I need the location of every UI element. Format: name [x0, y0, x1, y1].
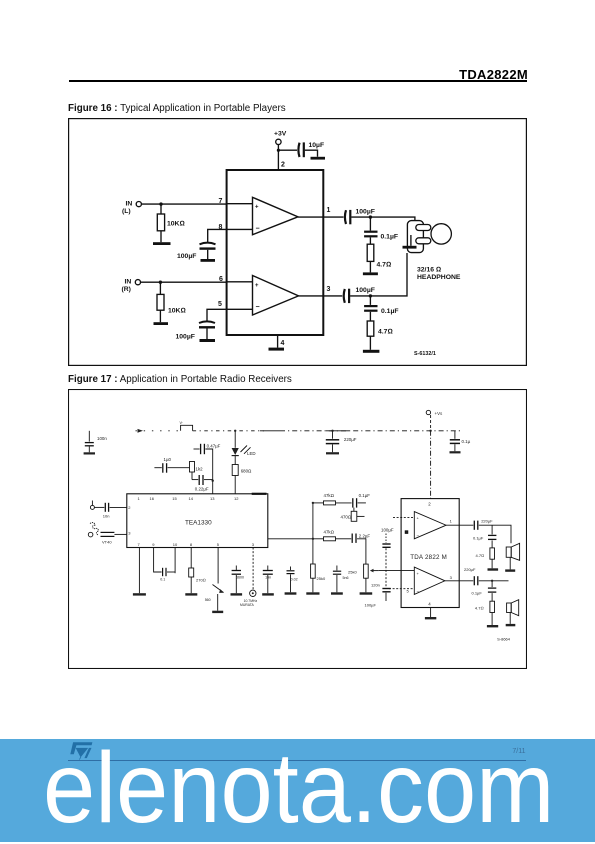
svg-text:4: 4 [428, 602, 431, 607]
output 1 wire [446, 524, 473, 526]
svg-text:100µF: 100µF [176, 334, 195, 341]
wire 10uF to ground [305, 150, 318, 157]
svg-text:−: − [256, 304, 260, 311]
svg-text:MURATA: MURATA [240, 603, 255, 607]
svg-text:10n: 10n [103, 513, 110, 518]
ground pot [360, 592, 373, 594]
ground 15n [262, 593, 274, 595]
svg-text:−: − [256, 226, 260, 233]
svg-text:2.2µF: 2.2µF [359, 533, 371, 538]
wire to headphone bottom [350, 253, 407, 296]
capacitor 10n left [104, 503, 106, 512]
headphone jack ground line [410, 235, 412, 246]
resistor 680ohm [232, 465, 238, 476]
svg-text:10µF: 10µF [309, 142, 325, 149]
op-amp U1A IC box [227, 170, 324, 335]
capacitor 0.22uF [192, 479, 198, 481]
pin4 ground wire [430, 608, 432, 618]
svg-text:−: − [417, 589, 420, 594]
svg-text:0.1µF: 0.1µF [381, 234, 399, 241]
svg-text:3: 3 [327, 286, 331, 293]
svg-text:4.7Ω: 4.7Ω [475, 606, 484, 611]
capacitor 100uF pin5 bottom plate [199, 326, 215, 328]
svg-text:100µF: 100µF [177, 253, 196, 260]
svg-text:47kΩ: 47kΩ [324, 530, 334, 535]
wire cap to ground [207, 250, 209, 259]
svg-text:680Ω: 680Ω [241, 469, 252, 474]
svg-text:+: + [417, 571, 420, 576]
svg-text:2: 2 [281, 162, 285, 169]
capacitor 0.1 below TEA [162, 568, 164, 576]
svg-text:1: 1 [327, 207, 331, 214]
svg-text:16: 16 [150, 496, 155, 501]
ground 100n [84, 452, 95, 454]
dashed stub bottom amp minus [389, 588, 414, 590]
wire junction to 10uF [278, 149, 297, 151]
wire to ground ch2 [369, 336, 371, 350]
murata resonator drop [252, 548, 254, 590]
svg-text:0.1µ: 0.1µ [462, 439, 471, 444]
LED D1 drop [234, 431, 236, 448]
input terminal R [135, 280, 140, 285]
ground 5n6 [331, 592, 343, 594]
headphone jack body [407, 221, 423, 253]
ground 100uF pin5 [200, 339, 216, 342]
node out1 junction [369, 215, 372, 218]
svg-text:9: 9 [152, 542, 155, 547]
svg-text:100µF: 100µF [356, 209, 375, 216]
resistor 470ohm [353, 508, 355, 512]
svg-text:V·: V· [180, 421, 184, 425]
svg-text:120n: 120n [371, 583, 380, 588]
figure 17 frame [69, 390, 527, 669]
TEA pin8 wire + resistor 270 [190, 548, 192, 569]
resistor 4.7ohm ch2 [367, 321, 374, 336]
resistor 10K L [157, 214, 164, 231]
fig17 fills: junction dots and grounds [84, 430, 516, 628]
resistor 1k2 [190, 462, 195, 473]
node rail-Vs [429, 430, 431, 432]
capacitor 220uF out1 [473, 521, 475, 530]
svg-text:10: 10 [173, 542, 178, 547]
ground transistor [212, 611, 223, 613]
svg-text:0.1µF: 0.1µF [359, 493, 371, 498]
bias chain vertical [312, 503, 314, 564]
capacitor 2.2uF lower [351, 534, 353, 543]
svg-text:0.02: 0.02 [291, 578, 298, 582]
TEA pin10 wire [174, 548, 176, 574]
ground 0.1/4.7 ch1 [363, 272, 378, 275]
switch S1 [181, 425, 193, 431]
IC TDA2822M box [401, 499, 459, 608]
capacitor 100uF out2 [344, 289, 345, 303]
svg-text:0.22µF: 0.22µF [195, 487, 209, 492]
capacitor 100n input [88, 431, 90, 442]
svg-text:4.7Ω: 4.7Ω [378, 329, 393, 336]
svg-text:+: + [255, 283, 259, 289]
svg-text:−: − [417, 534, 420, 539]
wire IN R [141, 281, 227, 283]
wire pin6 inside [227, 281, 253, 283]
resistor 47k lower [313, 538, 324, 540]
svg-text:2: 2 [428, 502, 431, 507]
murata circle [250, 590, 256, 596]
TEA pin7 ground wire [138, 548, 140, 594]
svg-text:+3V: +3V [274, 131, 287, 138]
capacitor 1u0 [154, 467, 161, 469]
svg-text:VT40: VT40 [102, 539, 112, 544]
wire junction down ch2 [369, 296, 371, 305]
supply rail dash-dot [136, 430, 181, 432]
ground headphone [403, 246, 417, 249]
svg-text:270Ω: 270Ω [196, 577, 206, 582]
svg-text:220µF: 220µF [481, 519, 493, 524]
wire to ground ch1 [369, 261, 371, 272]
ceramic filter cap 5600 [235, 566, 237, 571]
capacitor 0.1uF out1 [491, 525, 493, 534]
resistor 2k5 chain [311, 564, 316, 578]
ground 0.1u rail [450, 451, 461, 453]
junction node dots [153, 149, 417, 353]
Vs terminal [426, 410, 430, 414]
node IN R junction [159, 281, 162, 284]
ground 10K L [153, 242, 171, 245]
ground 220uF [326, 452, 339, 454]
svg-text:220µF: 220µF [344, 437, 357, 442]
resistor 4.7ohm ch1 [367, 244, 374, 261]
capacitor 220uF rail [332, 431, 334, 439]
wire to resistor ch2 [369, 312, 371, 321]
cap 15n [267, 566, 269, 571]
svg-text:12: 12 [234, 496, 239, 501]
svg-text:0.47µF: 0.47µF [207, 444, 221, 449]
svg-text:32/16 Ω: 32/16 Ω [417, 267, 441, 274]
resistor 4.7 out2 [490, 601, 495, 612]
svg-text:100n: 100n [97, 436, 107, 441]
figure 16 frame [69, 119, 527, 366]
svg-text:47kΩ: 47kΩ [324, 493, 334, 498]
ground bias chain [306, 592, 319, 594]
ground pin4 [269, 348, 285, 351]
svg-text:+: + [417, 516, 420, 521]
capacitor 100uF pin8 top plate [200, 243, 216, 245]
capacitor 100uF out1 [345, 210, 346, 224]
svg-text:0.1µF: 0.1µF [472, 591, 483, 596]
wire to ground L [160, 231, 162, 242]
input terminal L [136, 202, 141, 207]
IC TEA1330 box [127, 494, 268, 548]
capacitor 0.1uF ch1 [364, 231, 377, 233]
svg-text:6: 6 [219, 276, 223, 283]
svg-text:TEA1330: TEA1330 [185, 520, 212, 527]
svg-text:5n6: 5n6 [343, 576, 349, 580]
capacitor 0.47uF [194, 448, 200, 450]
dashed stub top amp input [393, 516, 414, 518]
labels [122, 131, 461, 358]
capacitor 100uF pin8 bottom plate [200, 247, 216, 249]
svg-text:4.7Ω: 4.7Ω [476, 553, 485, 558]
svg-text:5: 5 [407, 589, 410, 594]
resistor 10K R [157, 294, 164, 310]
wire pin7 inside [227, 203, 253, 205]
svg-text:1µ0: 1µ0 [164, 457, 172, 462]
svg-text:+: + [255, 205, 259, 211]
svg-text:1k2: 1k2 [196, 467, 204, 472]
svg-text:3: 3 [252, 542, 255, 547]
wire to resistor ch1 [369, 237, 371, 244]
svg-text:LED: LED [247, 451, 256, 456]
ground 0.1/4.7 ch2 [363, 350, 380, 353]
node out2 junction [369, 294, 372, 297]
svg-text:4.7Ω: 4.7Ω [377, 262, 392, 269]
svg-text:TDA 2822 M: TDA 2822 M [410, 554, 447, 561]
capacitor 0.1uF out2 [491, 581, 493, 587]
FIG16 [68, 118, 527, 366]
node rail-220uF [331, 430, 333, 432]
wire to headphone top [351, 217, 415, 221]
ground 10uF [311, 157, 326, 160]
ground 22n [285, 592, 297, 594]
svg-text:10KΩ: 10KΩ [168, 308, 186, 315]
100uF column dashes [385, 534, 387, 544]
speaker 1 [506, 547, 511, 557]
wire junction down ch1 [369, 217, 371, 230]
ground 270 [185, 593, 197, 595]
capacitor 10uF [298, 143, 299, 157]
svg-text:15n: 15n [265, 576, 271, 580]
left input terminal circle [90, 505, 94, 509]
capacitor 0.1uF ch2 [364, 305, 377, 307]
resistor 4.7 out1 [490, 548, 495, 559]
wire to ground R [159, 310, 161, 322]
fig17 labels [97, 411, 511, 642]
svg-text:3: 3 [128, 531, 131, 536]
TEA pin9 wire [154, 548, 162, 573]
svg-text:5600: 5600 [236, 576, 244, 580]
svg-text:S-6132/1: S-6132/1 [414, 351, 436, 357]
ground filter 5600 [231, 593, 243, 595]
op-amp A triangle [253, 197, 299, 234]
ground TEA pin7 [133, 593, 146, 595]
input square pin [405, 531, 408, 534]
resistor 47k upper [313, 502, 324, 504]
wire +3V to pin2 [277, 145, 279, 170]
headphone contact tabs [416, 224, 452, 244]
ground out1 [488, 568, 499, 570]
resistor 10K R drop [159, 282, 161, 294]
svg-text:1: 1 [450, 519, 453, 524]
wire pin5 [207, 309, 253, 320]
wire cap to ground [206, 329, 208, 340]
capacitor 100uF pin5 top plate [199, 321, 215, 323]
transistor / detector diagonal [217, 548, 219, 584]
svg-text:7: 7 [138, 542, 141, 547]
capacitor 22n node [290, 567, 292, 571]
svg-text:+VS: +VS [435, 411, 444, 416]
svg-text:25k0: 25k0 [317, 576, 326, 581]
svg-text:0.1µF: 0.1µF [473, 536, 484, 541]
capacitor 220uF out2 [473, 576, 475, 585]
ground speaker2 [506, 624, 516, 626]
svg-text:8: 8 [190, 542, 193, 547]
ground speaker1 [505, 569, 515, 571]
footer banner [0, 739, 595, 842]
node out2 junction [491, 580, 493, 582]
svg-text:4: 4 [281, 340, 285, 347]
svg-text:25k0: 25k0 [348, 570, 357, 575]
svg-text:560: 560 [205, 598, 211, 602]
svg-text:S-8664: S-8664 [497, 637, 511, 642]
ground 10K R [154, 322, 169, 325]
capacitor 0.1u rail right [454, 431, 456, 439]
svg-text:(R): (R) [122, 286, 131, 293]
svg-text:470Ω: 470Ω [341, 515, 352, 520]
node IN L junction [159, 202, 162, 205]
ground pin4 TDA [425, 617, 436, 619]
op-amp 2 triangle [414, 567, 445, 594]
svg-text:10KΩ: 10KΩ [167, 221, 185, 228]
+3V terminal [276, 139, 281, 144]
node +3V junction [277, 149, 280, 152]
svg-text:1: 1 [138, 496, 141, 501]
ground out2 [487, 625, 498, 627]
svg-text:HEADPHONE: HEADPHONE [417, 274, 461, 281]
wire pin8 [208, 229, 253, 242]
wire IN L [142, 203, 227, 205]
node 0.47 junction [212, 480, 214, 482]
rail arrow [138, 429, 144, 433]
headphone earpiece [431, 224, 451, 244]
variable cap lines [101, 531, 115, 533]
svg-text:(L): (L) [122, 208, 131, 215]
svg-text:0.1µF: 0.1µF [381, 308, 399, 315]
pin2 dash-dot drop to TDA [430, 431, 432, 499]
svg-text:IN: IN [126, 201, 133, 208]
header rule [69, 80, 527, 81]
svg-text:100µF: 100µF [365, 603, 377, 608]
FIG17 [68, 389, 527, 669]
wire TEA out right [268, 538, 313, 540]
svg-text:2: 2 [128, 505, 131, 510]
capacitor 5n6 node [336, 566, 338, 571]
node bias top [312, 502, 314, 504]
svg-text:5: 5 [217, 542, 220, 547]
node bias mid [312, 538, 314, 540]
op-amp 1 triangle [414, 512, 446, 539]
svg-text:IN: IN [125, 279, 132, 286]
svg-text:100µF: 100µF [356, 287, 375, 294]
svg-text:8: 8 [219, 224, 223, 231]
output 2 wire [445, 580, 473, 582]
svg-text:3: 3 [450, 575, 453, 580]
svg-text:13: 13 [210, 496, 215, 501]
node rail-LED [234, 430, 236, 432]
wire pin4 [277, 335, 279, 348]
wire pot to TDA input [379, 570, 415, 572]
ST logo [69, 741, 93, 760]
svg-text:15: 15 [172, 496, 177, 501]
ferrite antenna swirl [90, 523, 99, 535]
ground 100uF pin8 [201, 259, 216, 262]
LED D1 [232, 448, 239, 455]
wire pin3 out [299, 295, 343, 297]
svg-text:100µF: 100µF [381, 528, 394, 533]
node murata dot [252, 592, 254, 594]
speaker 2 [507, 603, 512, 613]
svg-text:14: 14 [189, 496, 194, 501]
volume pot 25k [364, 564, 369, 578]
svg-text:0.1: 0.1 [160, 578, 165, 582]
wire pin1 out [298, 216, 344, 218]
svg-text:220µF: 220µF [464, 567, 476, 572]
op-amp B triangle [253, 276, 299, 316]
svg-text:5: 5 [218, 301, 222, 308]
svg-text:7: 7 [219, 198, 223, 205]
resistor 10K L drop [160, 204, 162, 214]
capacitor 0.1uF upper [352, 498, 354, 507]
thick top right wire [252, 493, 267, 495]
